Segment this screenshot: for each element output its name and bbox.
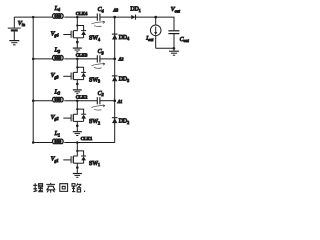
svg-text:L4: L4	[54, 6, 60, 12]
svg-text:Vg4: Vg4	[51, 31, 59, 37]
caption text 提案回路. (drawn strokes)	[33, 183, 85, 193]
node drain stage 4	[76, 16, 79, 19]
wire stage 4 input	[33, 16, 52, 18]
svg-text:C4: C4	[98, 7, 104, 13]
capacitor C3	[97, 55, 100, 62]
body diode of SW3	[77, 67, 86, 79]
svg-text:C3: C3	[98, 49, 104, 55]
node output ground junction	[173, 47, 176, 50]
svg-text:A2: A2	[118, 57, 125, 62]
svg-text:DD3: DD3	[119, 77, 129, 83]
diode DD2	[112, 118, 118, 123]
svg-text:DD4: DD4	[119, 35, 129, 41]
svg-text:L2: L2	[54, 89, 60, 95]
capacitor C4	[97, 14, 100, 21]
diode DD1 (output)	[131, 15, 135, 20]
wire diode chain vertical	[114, 17, 116, 142]
wire stage 3 input	[33, 58, 52, 60]
ground (stage 2)	[73, 132, 82, 136]
diode DD4	[112, 34, 118, 39]
inductor L4	[53, 14, 64, 19]
wire stage 3 to capacitor	[64, 58, 97, 60]
wire capacitor C4 to chain	[100, 16, 115, 18]
svg-text:CLK1: CLK1	[81, 136, 93, 141]
svg-text:Iout: Iout	[145, 36, 154, 42]
ground (stage 3)	[73, 90, 82, 94]
current source Iout	[150, 17, 161, 48]
transistor SW3 (NMOS)	[63, 59, 83, 90]
inductor L2	[53, 97, 64, 102]
current arrow under C3	[92, 63, 106, 68]
svg-text:L3: L3	[54, 48, 60, 54]
svg-text:Vg2: Vg2	[51, 115, 59, 121]
wire stage 2 input	[33, 100, 52, 102]
node A3	[113, 16, 116, 19]
ground (stage 4)	[73, 48, 82, 52]
ground (output)	[169, 48, 179, 55]
svg-text:Vg3: Vg3	[51, 73, 59, 79]
node Vout	[154, 16, 157, 19]
transistor SW2 (NMOS)	[63, 101, 83, 132]
svg-text:A1: A1	[117, 99, 123, 104]
svg-text:SW2: SW2	[89, 119, 100, 125]
svg-text:A3: A3	[112, 8, 118, 13]
svg-text:Vg1: Vg1	[51, 157, 59, 163]
node A2	[113, 58, 116, 61]
wire A3 to output	[115, 16, 156, 18]
voltage source Vin	[8, 17, 21, 40]
inductor L1	[53, 139, 64, 144]
node drain stage 3	[76, 58, 79, 61]
capacitor C2	[97, 97, 100, 104]
ground (stage 1)	[73, 174, 82, 178]
current arrow under C2	[92, 105, 106, 110]
svg-text:SW3: SW3	[89, 77, 100, 83]
capacitor Cout	[168, 31, 179, 49]
transistor SW4 (NMOS)	[63, 17, 83, 48]
wire left bus	[32, 17, 34, 142]
wire capacitor C2 to chain	[100, 100, 115, 102]
svg-text:CLK2: CLK2	[76, 94, 88, 99]
svg-text:CLK4: CLK4	[76, 11, 88, 16]
wire output bottom	[156, 47, 174, 49]
wire Vout top	[156, 17, 174, 30]
svg-text:Cout: Cout	[180, 37, 190, 43]
transistor SW1 (NMOS)	[63, 143, 83, 174]
node bus junction stage 4	[32, 16, 35, 19]
svg-text:Vin: Vin	[18, 20, 25, 27]
wire capacitor C3 to chain	[100, 58, 115, 60]
svg-text:C2: C2	[98, 91, 104, 97]
diode DD3	[112, 76, 118, 81]
wire battery to bus	[14, 16, 33, 18]
node bus junction stage 3	[32, 58, 35, 61]
ground (battery)	[9, 41, 19, 45]
body diode of SW1	[77, 151, 86, 163]
node A1	[113, 99, 116, 102]
body diode of SW4	[77, 26, 86, 38]
svg-text:CLK3: CLK3	[76, 53, 88, 58]
wire stage 2 to capacitor	[64, 100, 97, 102]
svg-text:Vout: Vout	[171, 6, 181, 13]
node drain stage 1	[76, 141, 79, 144]
wire stage 1 to chain	[64, 142, 114, 144]
node bus junction stage 1	[32, 141, 35, 144]
body diode of SW2	[77, 109, 86, 121]
wire stage 1 input	[33, 142, 52, 144]
wire stage 4 to capacitor	[64, 16, 97, 18]
inductor L3	[53, 56, 64, 61]
svg-text:DD1: DD1	[130, 7, 140, 13]
current arrow under C4	[92, 21, 106, 26]
node bus junction stage 2	[32, 99, 35, 102]
svg-text:L1: L1	[54, 131, 60, 137]
svg-text:SW4: SW4	[89, 36, 100, 42]
svg-text:DD2: DD2	[119, 119, 129, 125]
svg-text:SW1: SW1	[89, 161, 100, 167]
node drain stage 2	[76, 99, 79, 102]
